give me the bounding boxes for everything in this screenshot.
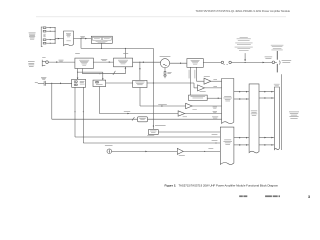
PWM processor U3	[75, 58, 94, 68]
node RF connector label	[265, 57, 273, 59]
gate drive A box U12	[222, 79, 234, 124]
wire ramp gen to output switch	[203, 61, 221, 63]
resistor row 1	[43, 27, 55, 29]
wire cap to mirror box	[45, 83, 71, 85]
note annotation block	[235, 37, 253, 51]
wire A3 to output mux	[183, 148, 220, 152]
wire gate B to power stage 1	[234, 137, 249, 139]
header rule	[36, 16, 286, 18]
wire terminal to main processor	[48, 61, 75, 63]
antenna pin bar	[277, 51, 278, 72]
capacitor C1	[38, 81, 46, 86]
wire AM box to limiter	[147, 83, 198, 88]
protection box U9	[189, 95, 208, 100]
node mid input label	[43, 34, 45, 37]
wire power stage to output pins 1	[259, 91, 274, 93]
wire cap row to gate drive via divider	[52, 83, 222, 120]
wire power stage to output pins 2	[259, 97, 274, 99]
node bus tap label	[155, 124, 166, 127]
wire branch down to AM avoidance	[139, 62, 141, 80]
node cap label	[41, 77, 46, 80]
rail processor to mirrors	[77, 69, 104, 81]
gate drive B box U13	[220, 127, 234, 164]
ramp generator U5	[187, 59, 203, 68]
node PWM input label block	[29, 33, 36, 40]
wire gate B to power stage 2	[234, 144, 249, 146]
wire top rail	[81, 39, 153, 49]
wire current source to buffer	[112, 151, 178, 153]
serial audio interface U1	[64, 31, 74, 46]
wire processor to modulator	[93, 61, 113, 63]
node LR input label	[35, 81, 38, 84]
wire mirror bottom 1 to output mux	[75, 87, 221, 137]
wire gate A to power stage 1	[234, 91, 249, 93]
wire ramp outputs down	[189, 67, 204, 95]
wire bias to AM box	[106, 82, 133, 84]
op-amp A5 buffer	[178, 111, 187, 117]
level shift box U10	[138, 117, 148, 122]
wire oscillator to ramp generator	[170, 62, 187, 64]
node antenna note block	[271, 45, 284, 50]
footer doc number	[265, 195, 280, 197]
terminal circle row 1	[46, 61, 49, 64]
wire reference to output mux	[158, 131, 220, 133]
wire note pointer	[244, 53, 246, 61]
wire power stage to output pins 3	[259, 137, 274, 139]
wire gate A to power stage 2	[234, 98, 249, 100]
wire power stage to output pins 4	[259, 144, 274, 146]
svg-text:3: 3	[308, 195, 310, 199]
node SHDN label 2	[123, 52, 128, 55]
oscillator OSC1	[160, 56, 171, 68]
resistor row 3	[43, 39, 55, 41]
op-amp A1	[204, 76, 211, 84]
wire switch to antenna pin	[231, 62, 272, 64]
wire AM box bottom to gate drive	[140, 88, 222, 109]
op-amp A2	[198, 85, 206, 92]
terminal circle antenna	[272, 61, 277, 64]
node CLK label	[101, 59, 107, 61]
output pin header box U15	[274, 84, 280, 150]
rail feedback to modulator	[83, 67, 127, 75]
wire bias bottom to gate drive	[99, 87, 221, 115]
node I2S label	[80, 36, 85, 38]
wire rail into PWM processor	[124, 48, 126, 58]
wire oscillator to modulator	[133, 61, 161, 63]
op-amp A4 buffer	[186, 103, 197, 109]
node transistor output label	[279, 60, 291, 64]
wire vertical bus to bottom	[153, 48, 154, 129]
node VALID label	[59, 60, 64, 62]
op-amp A3	[177, 148, 185, 155]
wire antenna down right side	[281, 74, 283, 150]
wire A1 to gate drive	[211, 79, 222, 81]
ground	[163, 76, 167, 78]
switch S1	[221, 61, 231, 65]
svg-text:Figure 2. TAS5715/TAS5719 20: Figure 2. TAS5715/TAS5719 20W UHF Power …	[165, 183, 279, 187]
footer date	[239, 195, 247, 197]
resistor row 4	[43, 42, 55, 44]
reference box U11	[148, 129, 158, 134]
wire serial to clock box	[74, 38, 92, 40]
wire A2 to gate drive	[205, 86, 222, 88]
resistor row 2	[43, 30, 55, 32]
connector J1	[42, 57, 45, 66]
wire mirror bottom 2 to output mux	[83, 87, 221, 143]
wire input junction vertical	[54, 28, 56, 44]
PWM modulator U4	[114, 58, 133, 67]
current source I1	[105, 145, 113, 154]
clock generator box U2	[91, 36, 112, 43]
power stage box U14	[249, 84, 259, 153]
wire protection to gate drive	[207, 97, 221, 99]
node speaker output label block	[289, 112, 299, 119]
svg-text:TAS5715/TAS5717/TAS5719-Q1 4MH: TAS5715/TAS5717/TAS5719-Q1 4MHz-PRGM1.9 …	[195, 9, 290, 13]
node SHDN label 1	[75, 52, 80, 55]
bracket input group	[41, 27, 42, 47]
AM avoidance box U8	[133, 80, 147, 87]
wire to serial audio box	[55, 38, 63, 40]
current mirror box U6	[72, 79, 86, 87]
node reset input label block	[28, 61, 35, 66]
resistor R1 to ground	[164, 68, 171, 75]
wire clock box down to rail	[100, 43, 102, 48]
bias box U7	[93, 80, 106, 86]
